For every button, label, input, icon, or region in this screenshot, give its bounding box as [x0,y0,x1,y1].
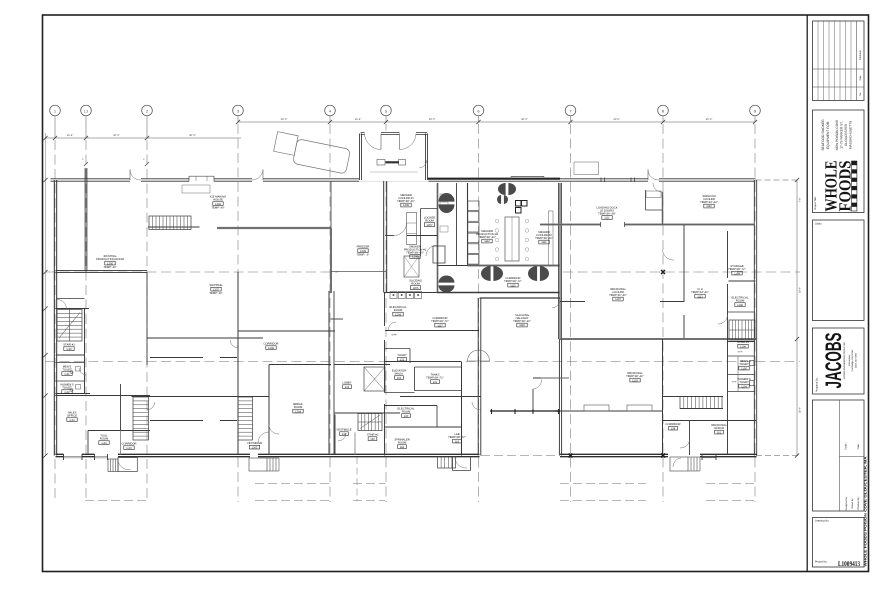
svg-text:16'-4": 16'-4" [67,134,74,137]
svg-text:Cambridge, MA 02142: Cambridge, MA 02142 [851,349,854,372]
svg-text:VESTIBULE: VESTIBULE [247,442,262,445]
svg-text:Prepared By:: Prepared By: [816,377,819,392]
svg-text:TEMP: 40°: TEMP: 40° [211,206,224,209]
svg-text:1117: 1117 [437,324,443,327]
svg-text:Drawing No.: Drawing No. [815,520,830,523]
svg-text:L1009413: L1009413 [838,560,860,568]
svg-text:30'-0": 30'-0" [429,118,436,121]
svg-text:1206: 1206 [412,256,418,259]
svg-text:118: 118 [400,446,405,449]
svg-text:1111: 1111 [541,241,547,244]
svg-text:TEMP:68°-72°: TEMP:68°-72° [504,280,522,283]
svg-text:38'-4": 38'-4" [799,407,802,413]
svg-text:Designed by :: Designed by : [845,495,848,510]
svg-text:Drawn by :: Drawn by : [851,497,854,509]
svg-text:1: 1 [54,109,56,113]
svg-text:1104: 1104 [741,385,747,388]
svg-text:PRODUCTION ROOM: PRODUCTION ROOM [96,258,125,261]
svg-text:TEMP: 40°: TEMP: 40° [209,292,222,295]
svg-text:30'-0": 30'-0" [281,118,288,121]
svg-text:1207: 1207 [427,224,433,227]
svg-text:1304: 1304 [295,410,301,413]
svg-text:TEMP:38°-40°: TEMP:38°-40° [513,320,531,323]
svg-text:1-90: 1-90 [66,348,72,351]
svg-text:GYP: GYP [391,334,396,337]
svg-text:1103: 1103 [632,379,638,382]
svg-text:CORRIDOR: CORRIDOR [264,343,279,346]
svg-text:TEMP:34°-40°: TEMP:34°-40° [700,201,718,204]
svg-text:ROOM: ROOM [394,309,403,312]
svg-text:SHIPPING: SHIPPING [209,284,222,287]
svg-text:Date :: Date : [857,442,860,449]
svg-text:1209: 1209 [360,250,366,253]
svg-text:CORRIDOR: CORRIDOR [122,443,137,446]
svg-text:121: 121 [433,381,438,384]
svg-text:1113: 1113 [697,295,703,298]
svg-text:ROOM: ROOM [398,442,407,445]
svg-text:TOILET: TOILET [62,369,72,372]
svg-text:1305: 1305 [252,446,258,449]
svg-text:119: 119 [455,440,460,443]
svg-text:No.: No. [859,92,862,96]
svg-text:WHOLE FOODS POISON COVE GLOUCE: WHOLE FOODS POISON COVE GLOUCESTER, MA [864,456,868,567]
svg-text:GYP: GYP [738,351,743,354]
svg-text:1111: 1111 [604,217,610,220]
svg-text:7: 7 [570,109,572,113]
svg-text:1305: 1305 [107,262,113,265]
svg-text:TEMP:68°-72°: TEMP:68°-72° [426,377,444,380]
svg-text:1-64: 1-64 [101,442,107,445]
svg-text:Revision: Revision [859,49,862,60]
svg-text:108: 108 [671,427,676,430]
svg-text:17-75 PARKER ST.: 17-75 PARKER ST. [839,121,843,149]
svg-text:1307: 1307 [213,288,219,291]
svg-text:1-62: 1-62 [64,391,70,394]
svg-text:TOILET: TOILET [739,363,749,366]
svg-text:9: 9 [754,109,756,113]
svg-text:132: 132 [370,438,375,441]
svg-text:(617) 242-9300: (617) 242-9300 [854,352,857,368]
svg-text:ROOM: ROOM [425,220,434,223]
svg-text:1308: 1308 [268,347,274,350]
svg-text:1204: 1204 [395,313,401,316]
svg-text:TEMP: -3°: TEMP: -3° [357,253,370,256]
svg-text:131: 131 [345,386,350,389]
svg-text:1107: 1107 [615,298,621,301]
svg-text:TEMP:34°-40°: TEMP:34°-40° [691,291,709,294]
svg-text:103: 103 [397,377,402,380]
svg-text:TEMP:38°-40°: TEMP:38°-40° [397,200,415,203]
svg-text:1109: 1109 [734,272,740,275]
svg-text:30'-0": 30'-0" [706,118,713,121]
svg-text:STAIR #1: STAIR #1 [63,344,75,347]
svg-text:JACOBS ENGINEERING GROUP INC.: JACOBS ENGINEERING GROUP INC. [843,341,846,380]
svg-text:30'-0": 30'-0" [613,118,620,121]
svg-text:LOBBY: LOBBY [342,382,351,385]
svg-text:130: 130 [342,433,347,436]
svg-text:1.3: 1.3 [84,109,89,113]
svg-text:1306: 1306 [215,203,221,206]
svg-text:1108: 1108 [737,304,743,307]
svg-text:1208: 1208 [403,204,409,207]
svg-text:1-60: 1-60 [126,447,132,450]
svg-text:Scale :: Scale : [845,442,848,450]
svg-text:TEMP:38°-40°: TEMP:38°-40° [478,236,496,239]
svg-text:1 Broadway: 1 Broadway [848,354,851,366]
svg-text:STAIR #3: STAIR #3 [737,341,749,344]
svg-text:OFFICE: OFFICE [714,427,724,430]
svg-text:7'-6": 7'-6" [799,197,802,202]
svg-text:1205: 1205 [413,287,419,290]
svg-text:120: 120 [404,415,409,418]
svg-text:30'-0": 30'-0" [521,118,528,121]
svg-text:TEMP:38°-40°: TEMP:38°-40° [406,252,424,255]
svg-text:ROOM: ROOM [402,411,411,414]
svg-text:Date: Date [859,75,862,81]
svg-text:TEMP:68°-72°: TEMP:68°-72° [448,436,466,439]
svg-text:GYP: GYP [732,381,737,384]
svg-text:30'-4": 30'-4" [799,287,802,293]
svg-text:TEMP: 40°: TEMP: 40° [103,266,116,269]
svg-text:Checked by :: Checked by : [857,496,860,510]
svg-text:1110: 1110 [706,205,712,208]
svg-text:TEMP:36°-40°: TEMP:36°-40° [609,294,627,297]
svg-text:HOUSE: HOUSE [213,199,223,202]
svg-text:SEAFOOD SMOKER: SEAFOOD SMOKER [821,119,825,151]
svg-text:30'-0": 30'-0" [189,134,196,137]
svg-text:1-61: 1-61 [64,373,70,376]
svg-text:TOILET: TOILET [739,381,749,384]
svg-text:ROOM: ROOM [411,283,420,286]
svg-text:TEMP:36°-38°: TEMP:36°-38° [598,213,616,216]
svg-text:4: 4 [329,109,331,113]
svg-text:EQUIPMENT FOR:: EQUIPMENT FOR: [826,121,830,149]
svg-text:1-63: 1-63 [69,419,75,422]
svg-text:CORRIDOR: CORRIDOR [666,423,681,426]
svg-text:122: 122 [400,358,405,361]
svg-text:TEMP:68°-72°: TEMP:68°-72° [431,320,449,323]
svg-text:20'-0": 20'-0" [113,134,120,137]
svg-text:Project No.: Project No. [815,561,828,564]
svg-text:1105: 1105 [741,367,747,370]
svg-text:Seals: Seals [815,223,822,226]
svg-text:2: 2 [146,109,148,113]
svg-text:3: 3 [237,109,239,113]
svg-text:101: 101 [717,431,722,434]
svg-text:STAIR #2: STAIR #2 [367,434,379,437]
svg-text:16'-4": 16'-4" [355,118,362,121]
svg-text:MASSACHUSETTS: MASSACHUSETTS [849,121,853,149]
svg-text:TEMP:38°-40°: TEMP:38°-40° [535,237,553,240]
svg-text:VESTIBULE: VESTIBULE [336,429,351,432]
svg-text:TEMP:68°-72°: TEMP:68°-72° [728,268,746,271]
svg-text:1115: 1115 [510,284,516,287]
svg-text:Project Title:: Project Title: [814,196,817,210]
svg-text:1112: 1112 [484,240,490,243]
svg-text:TOILET: TOILET [62,387,72,390]
svg-text:1106: 1106 [740,345,746,348]
svg-text:TEMP:38°-40°: TEMP:38°-40° [626,375,644,378]
svg-text:1116: 1116 [519,324,525,327]
svg-text:TOILET: TOILET [397,354,407,357]
svg-text:FREEZER: FREEZER [357,246,370,249]
svg-text:MACH.: MACH. [395,373,404,376]
svg-text:5: 5 [385,109,387,113]
svg-text:JACOBS: JACOBS [821,333,846,389]
svg-text:6: 6 [478,109,480,113]
svg-text:GLOUCESTER: GLOUCESTER [844,123,848,146]
svg-text:OFFICE: OFFICE [67,415,77,418]
svg-text:8: 8 [662,109,664,113]
svg-text:ROOM: ROOM [736,300,745,303]
svg-text:ROOM: ROOM [100,438,109,441]
svg-text:NEW POISON COVE: NEW POISON COVE [835,120,839,151]
svg-text:ROOM: ROOM [294,406,303,409]
